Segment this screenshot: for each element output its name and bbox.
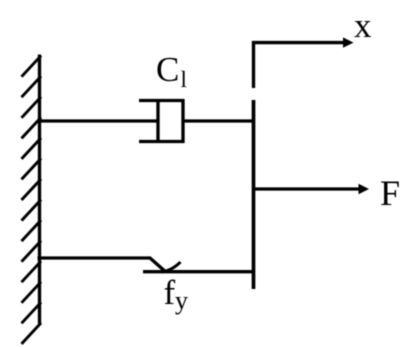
wall hatch 14 [22,323,42,344]
wall hatch 8 [22,200,42,221]
damper C1 piston plate [156,100,159,143]
wall hatch 1 [22,56,42,77]
damper C1 cylinder right wall [181,99,184,143]
wall [38,55,41,324]
svg-text:y: y [175,286,188,315]
friction slip plate [143,270,255,273]
wire: damper right rod [183,119,255,122]
svg-text:x: x [354,6,372,45]
wall hatch 4 [22,117,42,138]
wall hatch 6 [22,158,42,179]
wall hatch 11 [22,261,42,282]
friction flick curve [162,262,181,272]
wall hatch 13 [22,302,42,323]
mass bar [252,100,256,289]
wall hatch 3 [22,97,42,118]
wire: damper left rod [38,119,159,122]
force F arrowhead [359,184,370,194]
force F line [255,187,359,190]
wire: friction upper rod [38,258,166,271]
svg-text:C: C [156,50,179,89]
svg-text:l: l [181,67,187,92]
wall hatch 7 [22,179,42,200]
wall hatch 2 [22,76,42,97]
x axis line [254,43,345,88]
wall hatch 10 [22,241,42,262]
svg-text:f: f [164,273,176,312]
x axis arrowhead [343,37,354,47]
wall hatch 12 [22,282,42,303]
wall hatch 5 [22,138,42,159]
damper C1 cylinder top [139,99,185,102]
svg-text:F: F [380,173,400,213]
wall hatch 9 [22,220,42,241]
damper C1 cylinder bottom [139,140,185,143]
